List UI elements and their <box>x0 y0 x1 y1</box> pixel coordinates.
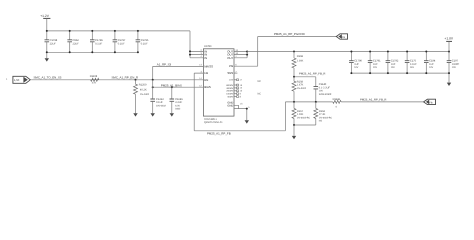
resistor R1250 <box>134 79 150 113</box>
svg-text:R1250: R1250 <box>139 84 147 87</box>
wire: bottom return rail <box>47 51 138 53</box>
svg-text:5: 5 <box>248 106 250 109</box>
svg-text:QFN20-CS0A-01: QFN20-CS0A-01 <box>204 121 223 124</box>
capacitor C197 <box>447 51 460 75</box>
svg-text:100MV: 100MV <box>226 93 233 96</box>
svg-text:1.47K: 1.47K <box>297 84 304 87</box>
resistor R1146 (series, horizontal) <box>333 98 342 109</box>
svg-text:NC: NC <box>258 92 262 95</box>
off-page connector (EN, left) <box>6 76 30 83</box>
wire: OUT stubs <box>234 52 247 58</box>
svg-text:0.1UF: 0.1UF <box>410 63 417 66</box>
svg-text:1UF: 1UF <box>429 63 434 66</box>
svg-text:0.1UF: 0.1UF <box>156 101 163 104</box>
svg-text:R1146: R1146 <box>333 98 341 101</box>
svg-text:22UF: 22UF <box>73 42 80 45</box>
svg-text:NS: NS <box>319 120 323 123</box>
pin stub: SNS <box>234 72 237 74</box>
capacitor C1140 <box>314 77 332 102</box>
svg-text:R169: R169 <box>297 55 304 58</box>
wire: EN net <box>31 79 203 81</box>
svg-text:1.00K: 1.00K <box>297 60 304 63</box>
power flag +1.2V (input rail) <box>40 14 50 31</box>
svg-text:PG: PG <box>342 36 346 39</box>
svg-text:FB: FB <box>204 71 208 75</box>
ground (R1250) <box>133 113 137 116</box>
svg-text:PM25_A1_RP_FB: PM25_A1_RP_FB <box>207 132 231 136</box>
svg-text:1.6V: 1.6V <box>229 79 234 82</box>
capacitor C1791 <box>368 51 381 75</box>
U1250 left pin names <box>204 49 213 89</box>
ground (U1250) <box>245 120 249 123</box>
svg-text:+1.8V: +1.8V <box>444 37 454 41</box>
svg-text:SOM-9030E: SOM-9030E <box>319 93 332 96</box>
svg-text:1UF: 1UF <box>354 63 359 66</box>
svg-text:2.2UF: 2.2UF <box>175 101 182 104</box>
ground (output bank) <box>447 73 451 86</box>
capacitor C1212 <box>150 80 166 113</box>
svg-text:10V: 10V <box>429 66 434 69</box>
wire: GND tie <box>234 105 247 120</box>
svg-text:R1108: R1108 <box>90 75 98 78</box>
off-page connector (PGOOD) <box>336 34 347 39</box>
svg-text:15: 15 <box>240 87 243 90</box>
U1250 right pin names <box>227 49 233 75</box>
resistor R162 <box>314 102 333 125</box>
capacitor C1797 <box>113 30 126 53</box>
U1250 left pin numbers <box>199 49 202 88</box>
svg-text:10V: 10V <box>373 66 378 69</box>
svg-text:10V: 10V <box>391 66 396 69</box>
capacitor C1792 <box>386 51 399 75</box>
svg-text:6.3V: 6.3V <box>175 104 180 107</box>
wire: PG run <box>234 37 336 67</box>
svg-text:0.1-2.2UF: 0.1-2.2UF <box>319 86 331 89</box>
svg-text:1%-0402: 1%-0402 <box>140 93 150 96</box>
svg-text:17: 17 <box>240 79 243 82</box>
wire: output bank bottom rail <box>351 72 449 74</box>
resistor R158 <box>292 77 307 102</box>
U1250 right pin numbers <box>235 49 250 109</box>
resistor R167 <box>292 102 310 125</box>
ground (divider) <box>292 125 296 139</box>
svg-text:1%-0402: 1%-0402 <box>297 87 307 90</box>
svg-text:10: 10 <box>240 90 243 93</box>
svg-text:9: 9 <box>240 93 242 96</box>
capacitor C1196 <box>170 87 184 113</box>
svg-text:BIAS: BIAS <box>204 85 211 89</box>
node: IN feed junctions <box>189 50 191 52</box>
capacitor C1796 <box>90 30 103 53</box>
svg-text:SNS: SNS <box>227 71 233 75</box>
svg-text:A1_RP_S3: A1_RP_S3 <box>157 62 172 66</box>
svg-text:0.1UF: 0.1UF <box>141 42 148 45</box>
svg-text:EN: EN <box>204 78 208 82</box>
svg-text:1: 1 <box>6 78 8 81</box>
svg-text:10V: 10V <box>354 66 359 69</box>
svg-text:10V-0402: 10V-0402 <box>156 104 167 107</box>
capacitor C175 <box>405 51 417 75</box>
svg-text:SMC_A1_TO_EN_S3: SMC_A1_TO_EN_S3 <box>34 76 62 80</box>
svg-text:PM25_A1_BIAS: PM25_A1_BIAS <box>161 83 182 87</box>
capacitor C1790 <box>349 51 362 75</box>
pin stubs: NC voltage-select pins <box>234 79 237 81</box>
svg-text:800MV: 800MV <box>226 84 233 87</box>
svg-text:FB: FB <box>429 102 432 105</box>
svg-text:400MV: 400MV <box>226 87 233 90</box>
capacitor C194 <box>424 51 436 75</box>
svg-text:40.2K: 40.2K <box>140 88 147 91</box>
ground (C1196) <box>170 113 174 116</box>
svg-text:1UF: 1UF <box>391 63 396 66</box>
svg-text:200MV: 200MV <box>226 90 233 93</box>
svg-text:17.4K: 17.4K <box>319 113 326 116</box>
svg-text:50MV: 50MV <box>227 96 233 99</box>
wire: output rail <box>247 51 449 53</box>
capacitor C962 <box>67 30 79 53</box>
svg-text:0.1UF: 0.1UF <box>95 42 102 45</box>
svg-text:1,50: 1,50 <box>14 79 20 82</box>
svg-text:IN: IN <box>204 56 207 60</box>
svg-text:+1.2V: +1.2V <box>40 14 50 18</box>
svg-text:PM25_A1_RP_FB_R: PM25_A1_RP_FB_R <box>360 98 386 102</box>
svg-text:PM25_A1_RP_PGOOD: PM25_A1_RP_PGOOD <box>274 32 305 36</box>
regulator U1250 box <box>203 49 234 116</box>
capacitor C1798 <box>45 30 58 53</box>
resistor R1108 (series in EN line) <box>90 75 99 85</box>
svg-text:NR/SS: NR/SS <box>204 64 213 68</box>
power flag +1.8V (output rail) <box>444 37 454 52</box>
svg-text:47K: 47K <box>92 82 97 85</box>
svg-text:1.00K: 1.00K <box>297 113 304 116</box>
svg-text:0.1UF: 0.1UF <box>118 42 125 45</box>
wire: rail feed into IN pins <box>189 31 191 58</box>
svg-text:1%-0402-RC: 1%-0402-RC <box>297 116 311 119</box>
svg-text:10V: 10V <box>452 66 457 69</box>
svg-text:16: 16 <box>240 84 243 87</box>
svg-text:1UF: 1UF <box>373 63 378 66</box>
svg-text:16: 16 <box>240 103 243 106</box>
wire: divider node <box>294 76 316 78</box>
wire: BIAS run <box>153 86 204 88</box>
svg-text:SMC_A1_RP_EN_R: SMC_A1_RP_EN_R <box>112 76 139 80</box>
capacitor C1795 <box>136 30 149 53</box>
wire: NR/SS riser and run <box>153 66 204 79</box>
svg-text:0: 0 <box>336 105 338 108</box>
wire: FB sense run <box>285 101 332 103</box>
off-page connector (FB sense) <box>424 99 436 104</box>
svg-text:PG: PG <box>229 64 233 68</box>
svg-text:1%-0402-RC: 1%-0402-RC <box>319 116 333 119</box>
wire: top input rail <box>47 30 190 32</box>
svg-text:22UF: 22UF <box>50 42 57 45</box>
wire: divider bottom tie <box>294 124 316 126</box>
svg-text:U1250: U1250 <box>204 45 212 48</box>
resistor R169 <box>292 51 304 77</box>
ground (C1212) <box>151 113 155 116</box>
ground (input cap bank) <box>45 52 49 61</box>
wire: FB bottom run <box>194 102 285 131</box>
svg-text:100PF: 100PF <box>452 63 460 66</box>
svg-text:PM25_A1_RP_FB_R: PM25_A1_RP_FB_R <box>299 72 325 76</box>
svg-text:GND: GND <box>227 104 233 107</box>
svg-text:8: 8 <box>240 95 242 98</box>
svg-text:10V: 10V <box>319 90 324 93</box>
svg-text:0402: 0402 <box>175 108 181 111</box>
wire: FB pin drop <box>194 73 203 131</box>
svg-text:NC: NC <box>258 80 262 83</box>
svg-text:OUT: OUT <box>227 56 233 60</box>
svg-text:16V: 16V <box>410 66 415 69</box>
